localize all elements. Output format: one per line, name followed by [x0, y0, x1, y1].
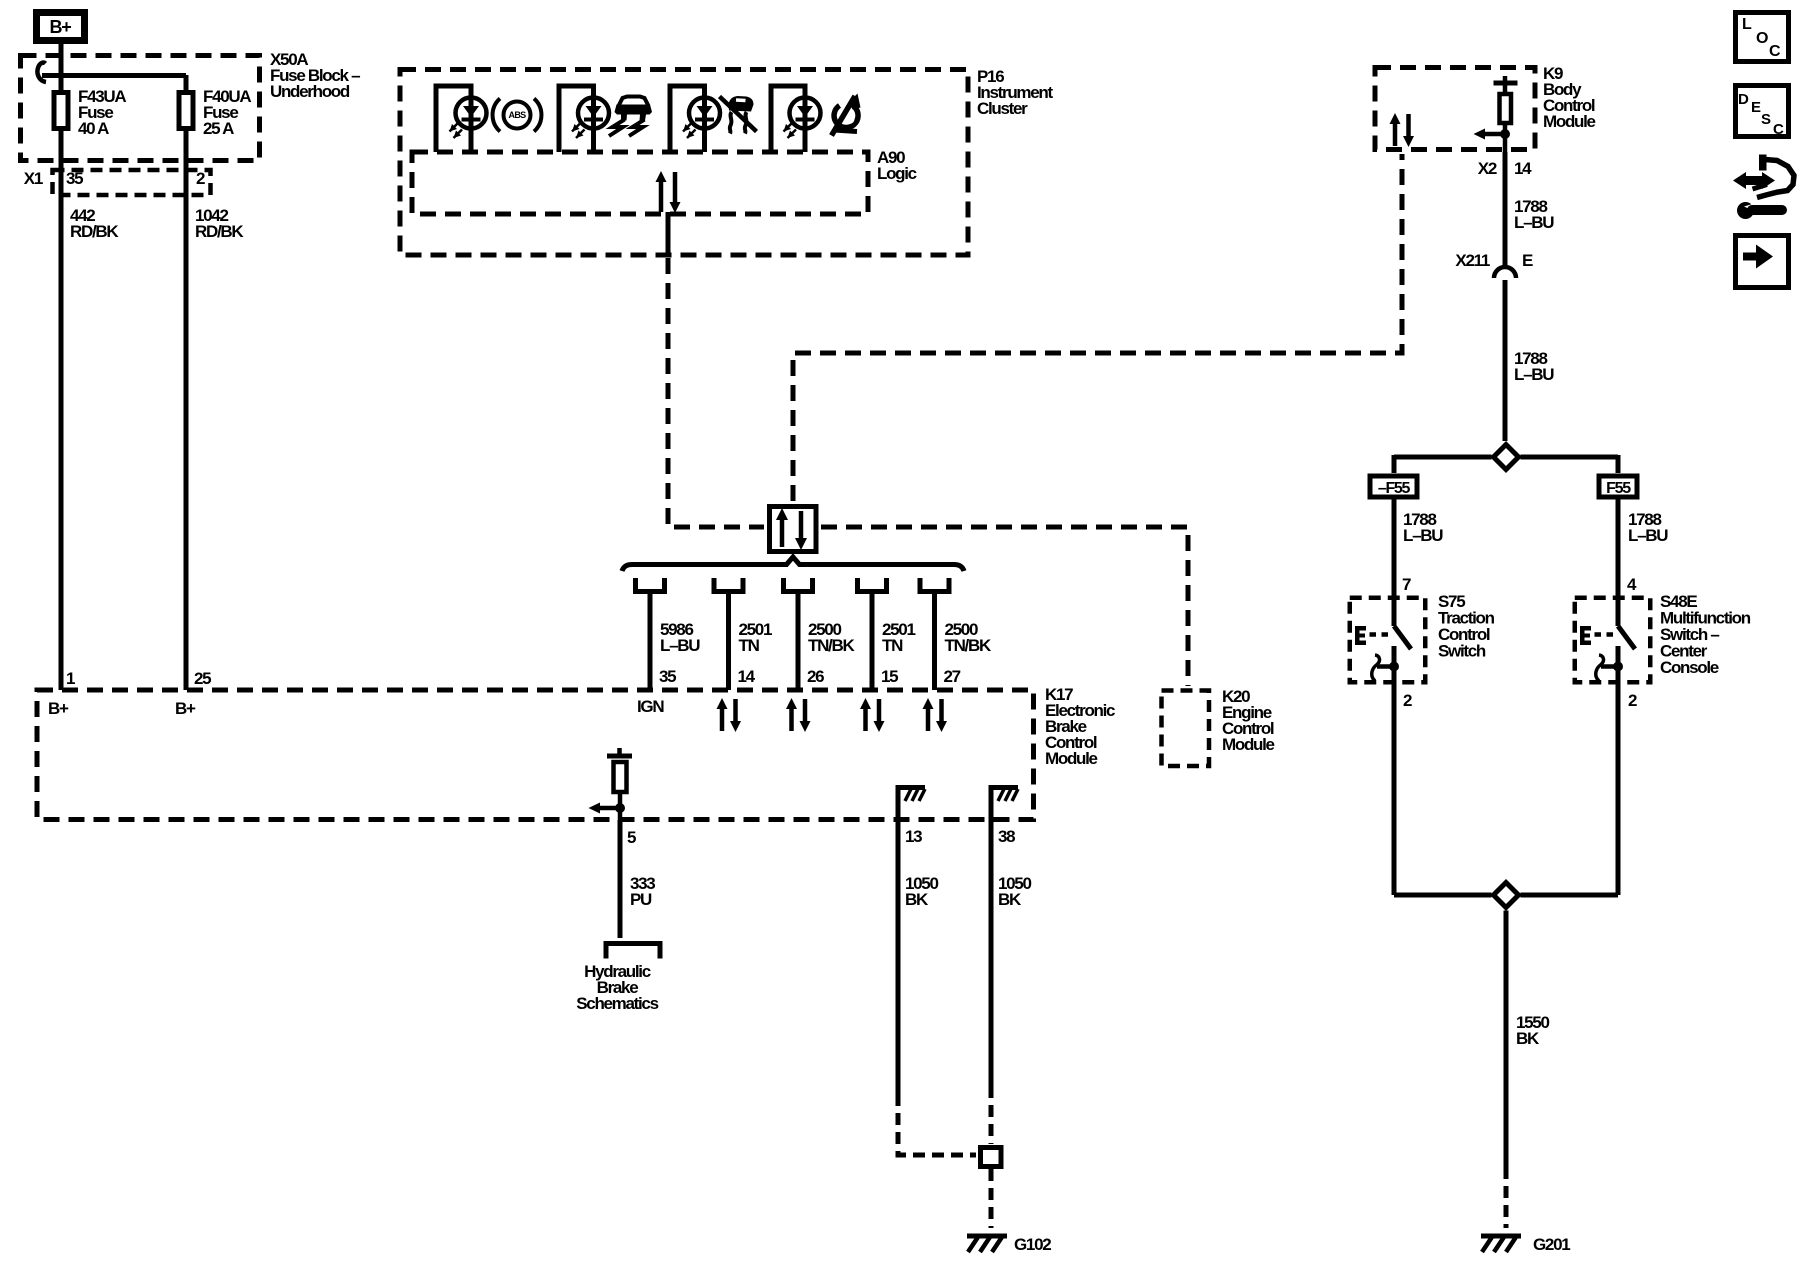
- svg-text:Console: Console: [1660, 658, 1719, 677]
- svg-text:Underhood: Underhood: [270, 82, 350, 101]
- svg-text:35: 35: [659, 667, 676, 686]
- svg-text:L–BU: L–BU: [1514, 365, 1554, 384]
- svg-text:TN: TN: [882, 636, 903, 655]
- svg-text:25: 25: [194, 669, 211, 688]
- svg-text:5: 5: [627, 828, 636, 847]
- svg-text:Module: Module: [1222, 735, 1275, 754]
- svg-text:TN: TN: [739, 636, 760, 655]
- svg-text:G201: G201: [1533, 1235, 1570, 1254]
- svg-text:L–BU: L–BU: [1628, 526, 1668, 545]
- svg-text:C: C: [1773, 121, 1784, 138]
- svg-text:E: E: [1751, 99, 1761, 116]
- svg-text:O: O: [1756, 30, 1768, 47]
- svg-text:40 A: 40 A: [78, 119, 109, 138]
- svg-text:TN/BK: TN/BK: [945, 636, 992, 655]
- svg-text:BK: BK: [905, 890, 929, 909]
- svg-text:27: 27: [944, 667, 961, 686]
- svg-text:38: 38: [998, 827, 1015, 846]
- svg-text:13: 13: [905, 827, 922, 846]
- svg-text:L–BU: L–BU: [660, 636, 700, 655]
- svg-text:IGN: IGN: [637, 697, 664, 716]
- svg-text:14: 14: [1514, 159, 1532, 178]
- svg-text:35: 35: [66, 169, 83, 188]
- svg-text:ABS: ABS: [509, 110, 527, 120]
- svg-text:25 A: 25 A: [203, 119, 234, 138]
- svg-text:G102: G102: [1014, 1235, 1051, 1254]
- svg-text:PU: PU: [630, 890, 652, 909]
- svg-text:1: 1: [66, 669, 75, 688]
- svg-text:X211: X211: [1455, 251, 1489, 270]
- svg-text:Logic: Logic: [877, 164, 917, 183]
- svg-text:2: 2: [1403, 691, 1412, 710]
- svg-text:L–BU: L–BU: [1514, 213, 1554, 232]
- svg-text:F55: F55: [1606, 480, 1631, 497]
- svg-text:2: 2: [196, 169, 205, 188]
- svg-text:RD/BK: RD/BK: [195, 222, 244, 241]
- svg-text:2: 2: [1628, 691, 1637, 710]
- svg-text:RD/BK: RD/BK: [70, 222, 119, 241]
- svg-text:B+: B+: [50, 17, 72, 37]
- svg-text:D: D: [1738, 91, 1749, 108]
- svg-text:BK: BK: [998, 890, 1022, 909]
- svg-text:S: S: [1761, 111, 1771, 128]
- svg-text:B+: B+: [175, 699, 196, 718]
- svg-text:Module: Module: [1045, 749, 1098, 768]
- svg-text:Switch: Switch: [1438, 642, 1486, 661]
- svg-text:Module: Module: [1543, 112, 1596, 131]
- svg-text:26: 26: [807, 667, 824, 686]
- svg-text:TN/BK: TN/BK: [808, 636, 855, 655]
- svg-text:C: C: [1769, 43, 1781, 60]
- svg-text:BK: BK: [1516, 1029, 1540, 1048]
- svg-text:Cluster: Cluster: [977, 99, 1028, 118]
- svg-text:15: 15: [881, 667, 898, 686]
- svg-text:14: 14: [738, 667, 756, 686]
- svg-text:7: 7: [1402, 575, 1411, 594]
- svg-text:E: E: [1522, 251, 1533, 270]
- svg-text:B+: B+: [48, 699, 69, 718]
- svg-text:X2: X2: [1478, 159, 1497, 178]
- svg-text:L–BU: L–BU: [1403, 526, 1443, 545]
- svg-text:–F55: –F55: [1378, 480, 1411, 497]
- svg-text:X1: X1: [24, 169, 43, 188]
- svg-text:Schematics: Schematics: [576, 994, 658, 1013]
